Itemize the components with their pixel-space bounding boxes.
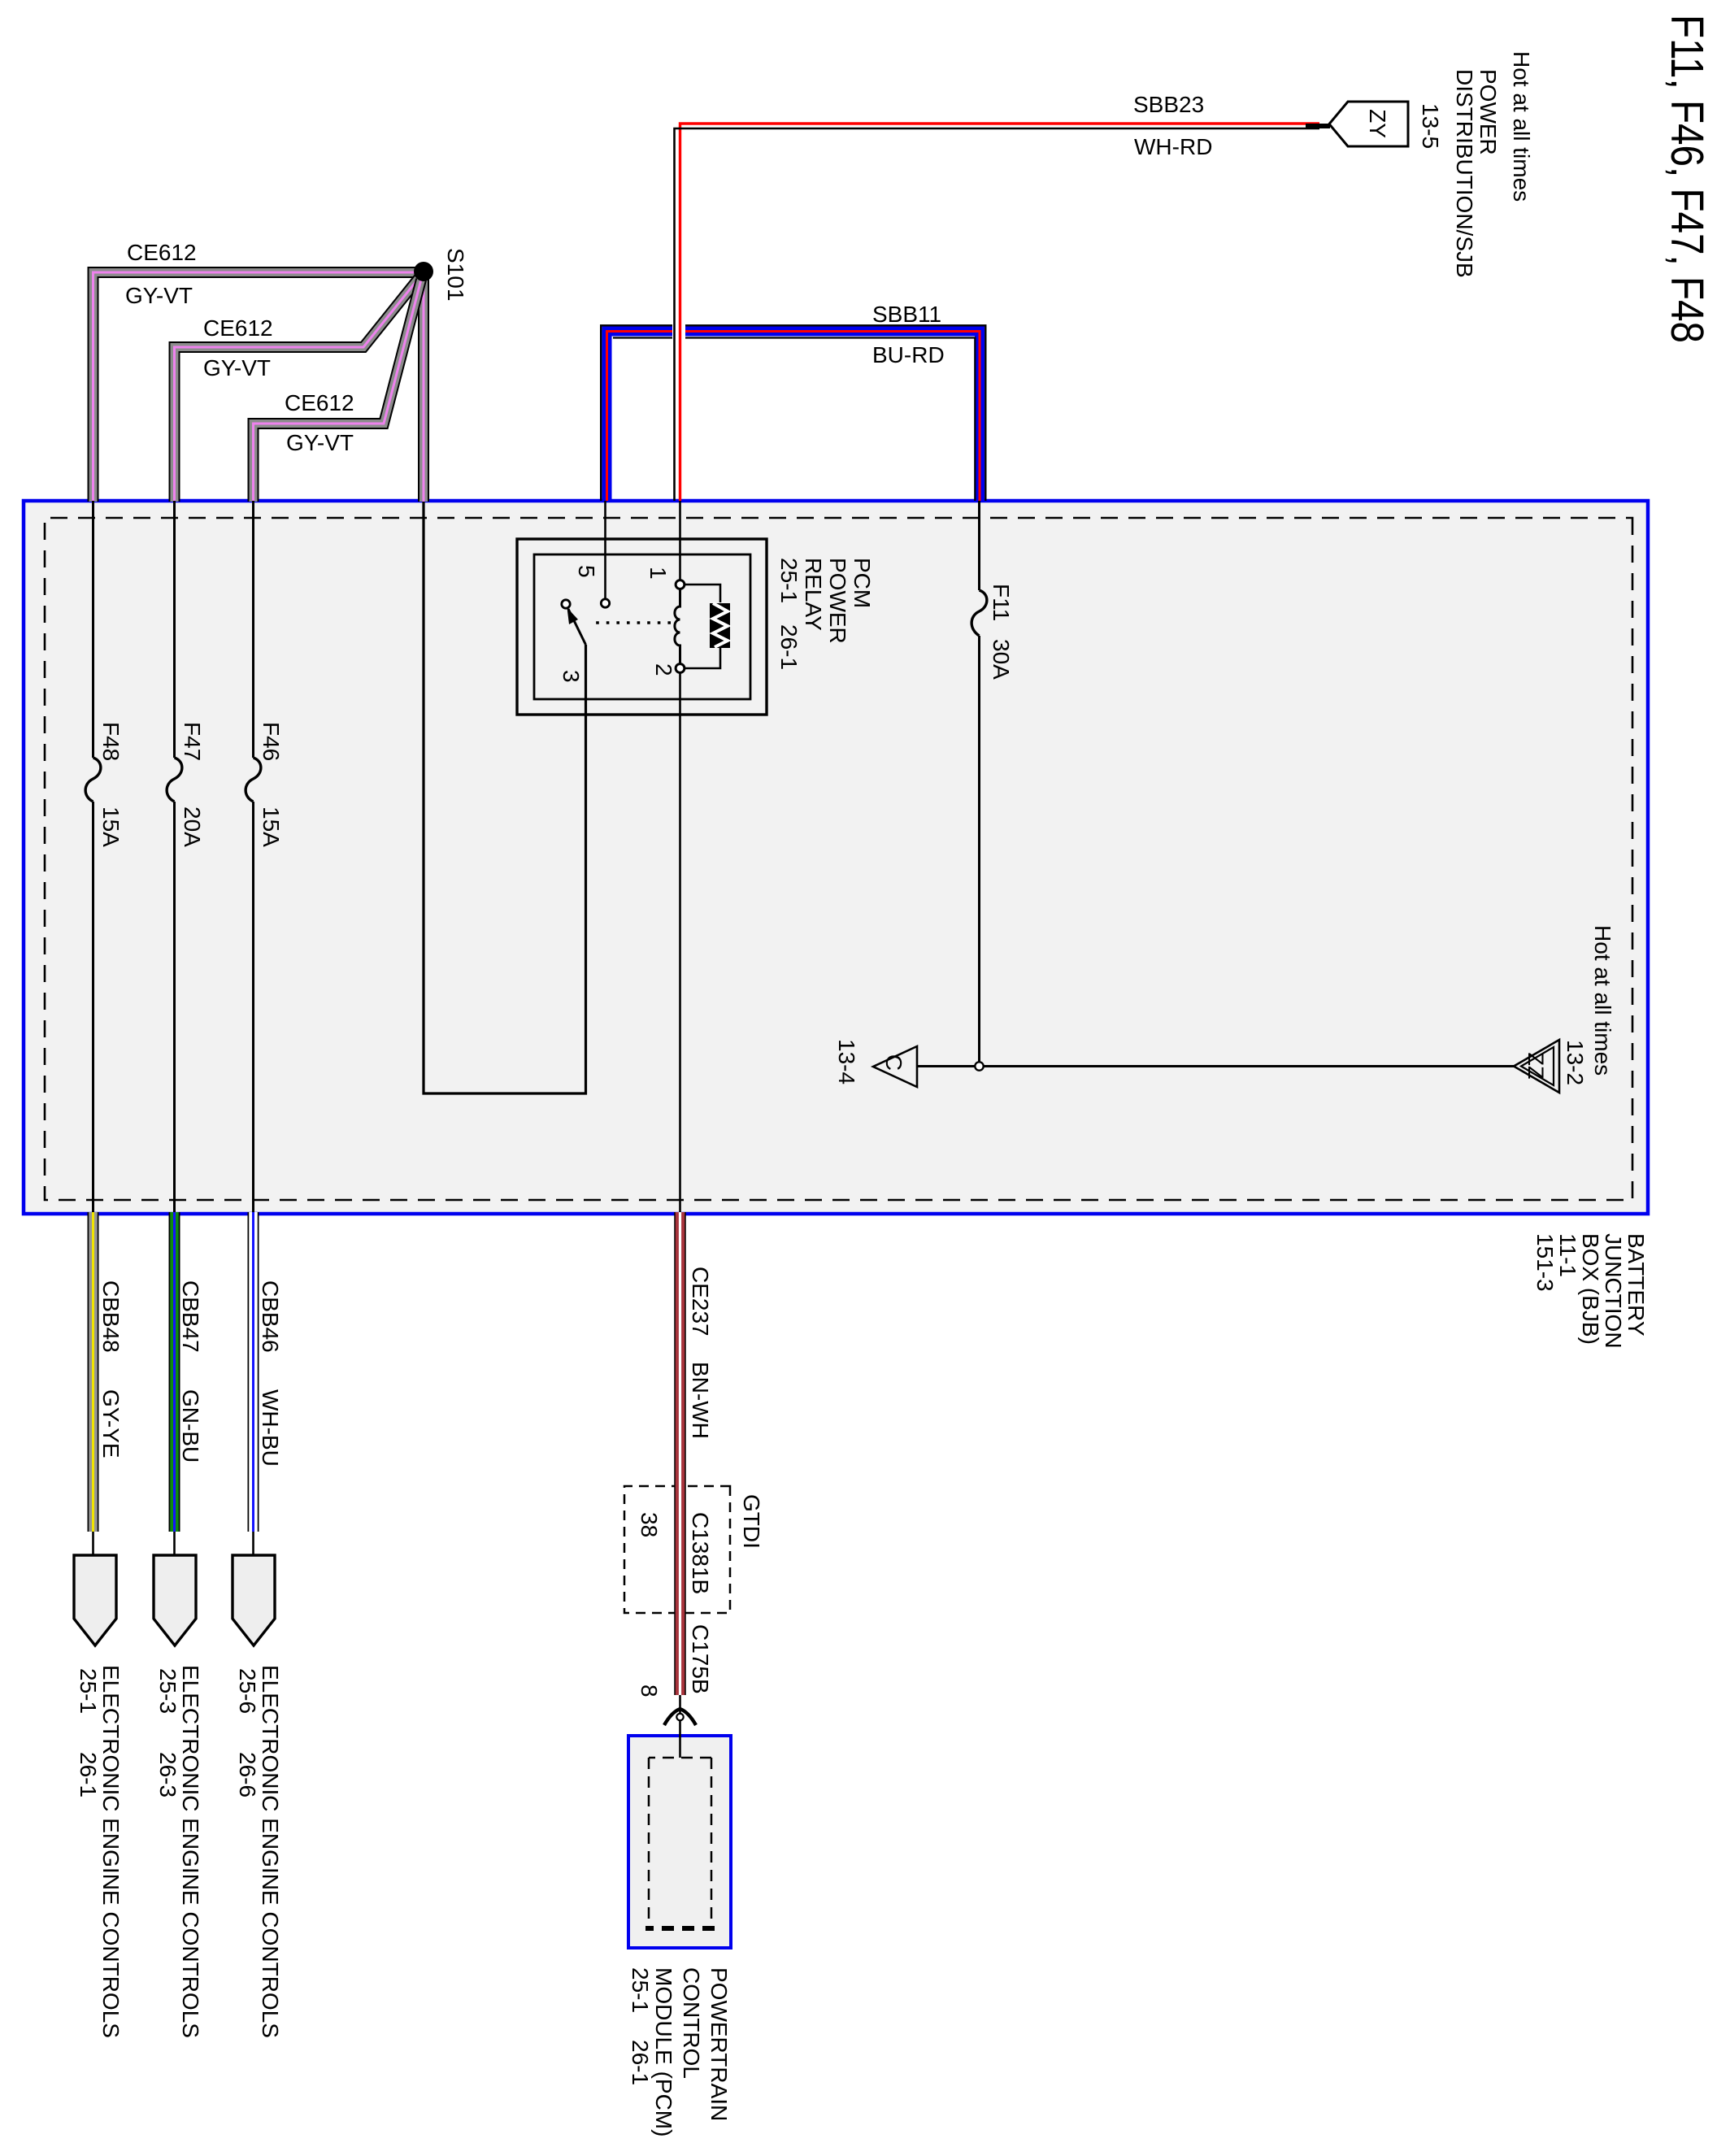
svg-text:26-1: 26-1 [628, 2040, 653, 2085]
svg-text:26-6: 26-6 [235, 1752, 260, 1797]
wire label CBB47 GN-BU [178, 1280, 203, 1463]
svg-text:POWER: POWER [1476, 69, 1501, 155]
svg-text:SBB11: SBB11 [872, 302, 941, 327]
svg-text:30A: 30A [989, 639, 1014, 680]
svg-text:38: 38 [637, 1512, 662, 1537]
BJB inner dashed border [45, 518, 1632, 1200]
label C inside triangle [881, 1054, 906, 1071]
label hot at all times right [1590, 925, 1615, 1076]
label ZY inside connector [1365, 109, 1390, 138]
svg-text:CE612: CE612 [285, 390, 354, 415]
svg-text:15A: 15A [98, 806, 124, 847]
relay actuation dotted line [591, 621, 671, 624]
powertrain control module PCM box [628, 1736, 731, 1948]
label ZZ inside triangle [1524, 1053, 1548, 1080]
svg-text:CBB46: CBB46 [258, 1280, 283, 1353]
svg-text:25-1: 25-1 [628, 1967, 653, 2013]
fuse F46 15A symbol [246, 758, 261, 802]
svg-text:BU-RD: BU-RD [872, 342, 945, 367]
wire label GY-VT circuit 1 [125, 283, 193, 308]
PCM power relay outer box [517, 539, 767, 715]
svg-text:PCM: PCM [850, 558, 875, 608]
label PCM power relay 25-1 26-1 [776, 558, 875, 670]
connector pentagon CBB48 electronic engine controls [74, 1555, 116, 1645]
svg-text:13-4: 13-4 [834, 1039, 859, 1085]
wire SBB23 WH-RD red conductor from ZY connector [680, 124, 1320, 501]
svg-text:ZY: ZY [1365, 109, 1390, 138]
svg-text:ELECTRONIC ENGINE CONTROLS: ELECTRONIC ENGINE CONTROLS [258, 1665, 283, 2038]
svg-text:8: 8 [637, 1684, 662, 1697]
connector pentagon CBB46 electronic engine controls [233, 1555, 275, 1645]
wire CE612 GY-VT circuit 1 from S101 to F48 rail [93, 272, 423, 502]
svg-text:CE612: CE612 [203, 315, 273, 341]
label electronic engine controls 25-1 26-1 [76, 1665, 124, 2038]
wire label CE612 circuit 1 [127, 240, 197, 265]
wire label SBB11 [872, 302, 941, 327]
svg-text:1: 1 [645, 567, 671, 580]
svg-text:F47: F47 [180, 722, 205, 761]
svg-text:GN-BU: GN-BU [178, 1389, 203, 1463]
wire F48 rail inside BJB with fuse gap [92, 501, 94, 1214]
svg-text:GY-VT: GY-VT [203, 355, 271, 380]
svg-text:DISTRIBUTION/SJB: DISTRIBUTION/SJB [1452, 69, 1477, 278]
wire label WH-RD [1134, 134, 1212, 159]
svg-text:25-1: 25-1 [776, 558, 802, 603]
svg-text:20A: 20A [180, 806, 205, 847]
PCM inner dashed rectangle [645, 1758, 715, 1928]
svg-text:5: 5 [574, 565, 599, 578]
wire S101 splice output band GY-VT [418, 274, 429, 502]
svg-text:MODULE (PCM): MODULE (PCM) [651, 1967, 676, 2136]
fuse F47 20A symbol [167, 758, 182, 802]
svg-text:ELECTRONIC ENGINE CONTROLS: ELECTRONIC ENGINE CONTROLS [98, 1665, 124, 2038]
svg-text:S101: S101 [443, 248, 468, 301]
svg-text:2: 2 [651, 663, 676, 676]
title F11, F46, F47, F48 [1661, 15, 1713, 343]
relay pin number 1 [645, 567, 671, 580]
relay pin number 3 [559, 670, 584, 683]
svg-text:Hot at all times: Hot at all times [1509, 51, 1534, 202]
svg-text:BATTERY: BATTERY [1624, 1233, 1649, 1337]
relay pin number 2 [651, 663, 676, 676]
label 13-4 [834, 1039, 859, 1085]
svg-text:ELECTRONIC ENGINE CONTROLS: ELECTRONIC ENGINE CONTROLS [178, 1665, 203, 2038]
junction circle at F11 rail [975, 1062, 983, 1070]
fuse F48 15A symbol [85, 758, 101, 802]
wire pin1 feed inside BJB to relay pin 1 [679, 501, 681, 581]
wire label CBB46 WH-BU [258, 1280, 283, 1467]
label F48 15A [98, 722, 124, 847]
svg-text:F48: F48 [98, 722, 124, 761]
wire SBB11 BU-RD loop: pin5 rail to F11 rail [601, 325, 985, 501]
svg-text:F46: F46 [259, 722, 284, 761]
svg-text:SBB23: SBB23 [1133, 92, 1204, 117]
svg-text:BN-WH: BN-WH [688, 1362, 713, 1439]
svg-text:CONTROL: CONTROL [679, 1967, 704, 2079]
svg-text:CE612: CE612 [127, 240, 197, 265]
svg-text:POWERTRAIN: POWERTRAIN [706, 1967, 732, 2121]
svg-text:JUNCTION: JUNCTION [1601, 1233, 1626, 1349]
wire label CBB48 GY-YE [98, 1280, 124, 1458]
svg-text:F11: F11 [989, 584, 1014, 621]
svg-text:26-1: 26-1 [76, 1752, 101, 1797]
wire F11 rail inside BJB with fuse gap [978, 501, 980, 1063]
wire label CE612 circuit 3 [285, 390, 354, 415]
battery junction box BJB outline [24, 501, 1648, 1214]
wire CBB46 WH-BU band outside BJB [248, 1212, 259, 1557]
label electronic engine controls 25-6 26-6 [235, 1665, 283, 2038]
label powertrain control module PCM 25-1 26-1 [628, 1967, 732, 2136]
svg-text:26-1: 26-1 [776, 624, 802, 670]
svg-text:25-6: 25-6 [235, 1668, 260, 1714]
label hot at all times top left [1509, 51, 1534, 202]
svg-text:15A: 15A [259, 806, 284, 847]
wire CE237 BN-WH band outside BJB [674, 1212, 686, 1695]
label electronic engine controls 25-3 26-3 [155, 1665, 203, 2038]
relay pin number 5 [574, 565, 599, 578]
wire label CE612 circuit 2 [203, 315, 273, 341]
svg-text:151-3: 151-3 [1532, 1233, 1558, 1292]
svg-text:GTDI: GTDI [739, 1494, 764, 1549]
svg-text:25-1: 25-1 [76, 1668, 101, 1714]
wire label BU-RD [872, 342, 945, 367]
svg-text:POWER: POWER [825, 558, 850, 644]
svg-text:C: C [881, 1054, 906, 1071]
wire label CE237 BN-WH [688, 1267, 713, 1439]
connector triangle C to 13-4 [873, 1046, 917, 1087]
label battery junction box BJB 11-1 151-3 [1532, 1233, 1649, 1349]
wire relay pin3 to S101 rail [424, 272, 586, 1093]
label S101 [443, 248, 468, 301]
svg-text:WH-BU: WH-BU [258, 1389, 283, 1467]
PCM power relay inner box [534, 554, 750, 699]
wire pin5 rail inside BJB [604, 501, 606, 600]
svg-text:BOX (BJB): BOX (BJB) [1578, 1233, 1603, 1345]
connector pentagon CBB47 electronic engine controls [154, 1555, 196, 1645]
label F47 20A [180, 722, 205, 847]
wire CBB47 GN-BU band outside BJB [169, 1212, 180, 1557]
relay pin 2 terminal circle [676, 664, 685, 673]
wire CBB48 GY-YE band outside BJB [88, 1212, 99, 1557]
svg-text:WH-RD: WH-RD [1134, 134, 1212, 159]
wire F47 rail inside BJB with fuse gap [173, 501, 176, 1214]
svg-text:13-2: 13-2 [1563, 1040, 1588, 1085]
relay resistor zigzag [710, 603, 730, 648]
label power distribution SJB 13-5 [1418, 69, 1501, 278]
svg-text:GY-YE: GY-YE [98, 1389, 124, 1458]
relay pin 5 terminal circle [601, 599, 609, 607]
label F46 15A [259, 722, 284, 847]
wire CE612 GY-VT circuit 2 from S101 to F47 rail [175, 277, 420, 502]
GTDI connector C1381B dashed box [624, 1486, 730, 1613]
label F11 30A [989, 584, 1014, 680]
relay pin 1 terminal circle [676, 580, 685, 589]
svg-text:CE237: CE237 [688, 1267, 713, 1337]
wire label SBB23 [1133, 92, 1204, 117]
svg-text:GY-VT: GY-VT [125, 283, 193, 308]
wire F46 rail inside BJB with fuse gap [252, 501, 254, 1214]
svg-text:26-3: 26-3 [155, 1752, 180, 1797]
wire label GY-VT circuit 2 [203, 355, 271, 380]
relay switch blade with arrowhead [567, 608, 586, 645]
svg-text:C1381B: C1381B [688, 1512, 713, 1594]
wire relay pin2 output rail to PCM [679, 672, 681, 1758]
svg-text:11-1: 11-1 [1555, 1233, 1580, 1277]
svg-text:RELAY: RELAY [801, 558, 826, 631]
svg-text:3: 3 [559, 670, 584, 683]
node S101 splice dot [414, 262, 433, 281]
relay switch pivot circle pin 3 side [562, 600, 570, 608]
svg-text:13-5: 13-5 [1418, 103, 1443, 149]
svg-text:CBB47: CBB47 [178, 1280, 203, 1353]
svg-text:F11, F46, F47, F48: F11, F46, F47, F48 [1661, 15, 1713, 343]
wire label GY-VT circuit 3 [286, 430, 354, 455]
label GTDI [739, 1494, 764, 1549]
relay resistor parallel branch wires [684, 585, 720, 668]
connector C175B female terminal at PCM [664, 1709, 696, 1725]
wire SBB23 WH-RD black schematic line [675, 126, 1331, 501]
connector triangle ZZ from 13-2 hot at all times [1514, 1040, 1559, 1093]
label C1381B pin 38 [637, 1512, 713, 1594]
fuse F11 30A symbol [971, 590, 987, 636]
label 13-2 [1563, 1040, 1588, 1085]
svg-text:GY-VT: GY-VT [286, 430, 354, 455]
wire CE612 GY-VT circuit 3 from S101 to F46 rail [254, 280, 422, 502]
svg-text:Hot at all times: Hot at all times [1590, 925, 1615, 1076]
svg-text:C175B: C175B [688, 1624, 713, 1694]
svg-text:CBB48: CBB48 [98, 1280, 124, 1353]
relay coil between pins 1 and 2 [675, 589, 680, 663]
svg-text:25-3: 25-3 [155, 1668, 180, 1714]
label C175B pin 8 [637, 1624, 713, 1697]
svg-text:ZZ: ZZ [1524, 1053, 1548, 1080]
wire from ZZ triangle through junction to C triangle [917, 1065, 1514, 1067]
connector ZY to power distribution SJB [1329, 102, 1408, 146]
